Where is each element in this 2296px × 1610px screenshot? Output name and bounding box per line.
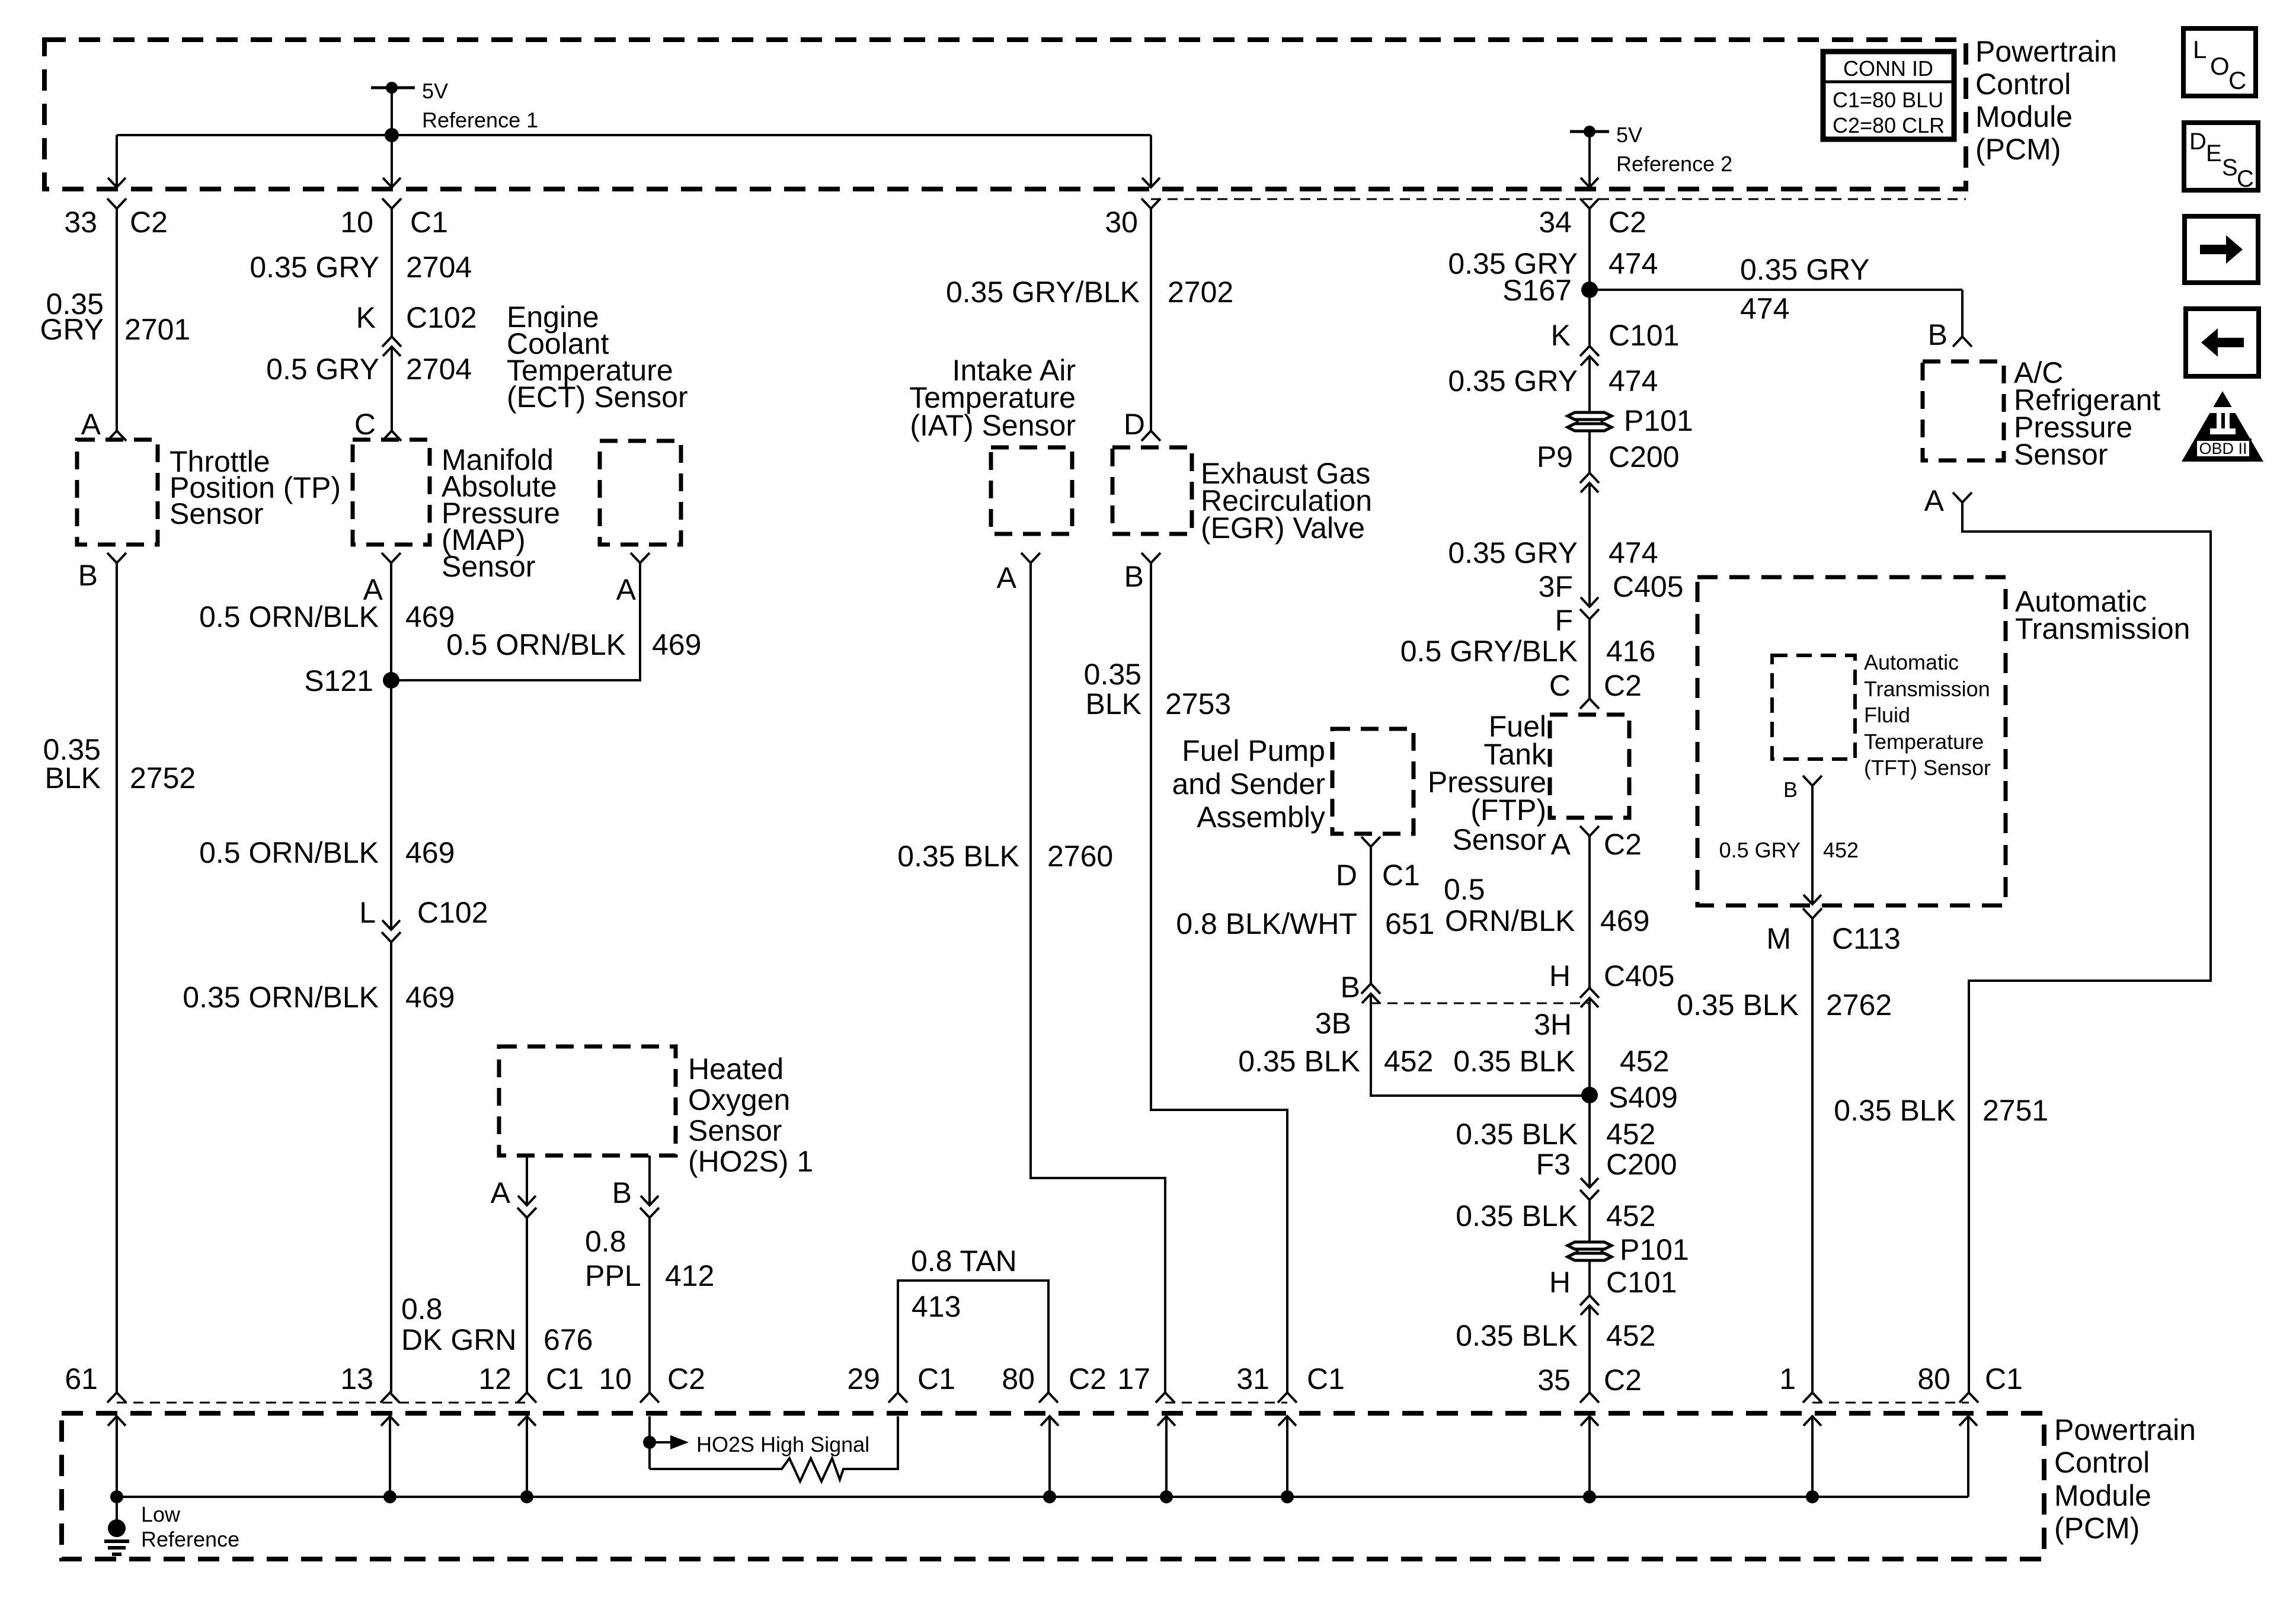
svg-text:S: S (2222, 155, 2238, 181)
svg-text:0.5 ORN/BLK: 0.5 ORN/BLK (199, 600, 379, 633)
svg-text:B: B (1341, 971, 1360, 1004)
svg-text:0.35 BLK: 0.35 BLK (1456, 1319, 1578, 1352)
wire 474 (C200-C405) (1588, 483, 1591, 607)
svg-text:0.5 ORN/BLK: 0.5 ORN/BLK (446, 628, 626, 661)
svg-text:35: 35 (1537, 1363, 1571, 1397)
svg-text:D: D (1336, 859, 1357, 892)
svg-text:0.5 ORN/BLK: 0.5 ORN/BLK (199, 836, 379, 869)
icon DESC box (2184, 123, 2258, 190)
svg-text:Fluid: Fluid (1864, 703, 1910, 727)
icon OBD II triangle (2182, 391, 2263, 462)
svg-text:C2: C2 (667, 1362, 705, 1395)
svg-text:C: C (2228, 66, 2246, 94)
svg-text:C1: C1 (410, 206, 448, 239)
svg-text:C200: C200 (1606, 1148, 1677, 1181)
svg-text:80: 80 (1917, 1362, 1950, 1395)
wire 452 3H (1588, 998, 1591, 1188)
thin dashed line bottom right (1812, 1402, 1969, 1404)
svg-text:Automatic: Automatic (1864, 650, 1959, 674)
svg-text:Powertrain: Powertrain (1975, 35, 2117, 68)
svg-text:452: 452 (1620, 1045, 1669, 1078)
svg-text:0.35 BLK: 0.35 BLK (1677, 988, 1799, 1022)
svg-text:33: 33 (64, 206, 97, 239)
svg-text:HO2S High Signal: HO2S High Signal (696, 1432, 869, 1457)
wire 452 (P101-C101) (1588, 1261, 1591, 1295)
wire 2760 (1031, 563, 1165, 1393)
wire 469 lower (390, 942, 392, 1393)
svg-text:412: 412 (665, 1259, 714, 1292)
pin 1 (bottom) (1803, 1393, 1822, 1403)
svg-text:469: 469 (405, 836, 455, 869)
svg-text:B: B (1783, 777, 1798, 802)
resistor HO2S (650, 1416, 898, 1481)
wire 469 ECT (391, 563, 640, 680)
wire 5V ref1 drop pin10 (391, 88, 393, 187)
svg-text:Transmission: Transmission (1864, 677, 1990, 701)
svg-text:C102: C102 (417, 896, 488, 929)
svg-text:0.35: 0.35 (1084, 658, 1141, 691)
svg-text:469: 469 (405, 981, 455, 1014)
svg-text:C2: C2 (1604, 1363, 1642, 1397)
svg-text:0.35 BLK: 0.35 BLK (1456, 1199, 1578, 1233)
svg-text:0.8: 0.8 (401, 1292, 443, 1326)
Automatic Transmission Fluid Temperature (TFT) Sensor box (1772, 655, 1855, 759)
pin 80 C1 (bottom) (1959, 1393, 1978, 1403)
svg-text:E: E (2206, 140, 2222, 167)
svg-text:452: 452 (1384, 1045, 1433, 1078)
svg-text:(TFT) Sensor: (TFT) Sensor (1864, 756, 1991, 780)
svg-text:C2: C2 (1604, 828, 1642, 861)
svg-text:A: A (1551, 828, 1571, 861)
svg-text:3H: 3H (1534, 1008, 1572, 1041)
svg-text:DK GRN: DK GRN (401, 1323, 516, 1356)
svg-text:P101: P101 (1620, 1233, 1689, 1266)
svg-text:L: L (2193, 36, 2207, 63)
svg-text:F3: F3 (1536, 1148, 1571, 1181)
svg-text:0.8 BLK/WHT: 0.8 BLK/WHT (1176, 907, 1357, 940)
junction bus x=2172 (1281, 1490, 1294, 1503)
wire 452 3B (1371, 994, 1590, 1096)
svg-text:B: B (1928, 318, 1948, 351)
Manifold Absolute Pressure (MAP) Sensor box (353, 440, 430, 545)
pin 61 C2 (bottom) (107, 1393, 126, 1403)
svg-text:M: M (1766, 922, 1791, 955)
wire 5V ref1 drop pin33 (116, 135, 118, 187)
junction 5V ref1 (385, 128, 399, 142)
wire 676 (526, 1218, 528, 1393)
svg-text:K: K (356, 301, 376, 334)
svg-text:0.8: 0.8 (585, 1225, 626, 1258)
svg-text:3B: 3B (1315, 1007, 1351, 1040)
svg-text:C200: C200 (1609, 440, 1680, 473)
svg-text:10: 10 (340, 206, 373, 239)
pin M C113 (1803, 908, 1822, 918)
svg-text:B: B (612, 1176, 632, 1209)
svg-text:Transmission: Transmission (2015, 612, 2190, 645)
svg-text:Reference 2: Reference 2 (1616, 152, 1732, 176)
svg-text:Reference: Reference (141, 1527, 239, 1551)
svg-text:H: H (1549, 959, 1571, 993)
svg-text:S167: S167 (1502, 274, 1572, 307)
ground Low Reference (116, 1497, 118, 1521)
svg-text:2704: 2704 (406, 251, 472, 284)
icon arrow left box (2186, 309, 2259, 376)
svg-text:10: 10 (599, 1362, 632, 1395)
svg-text:3F: 3F (1539, 570, 1573, 603)
Heated Oxygen Sensor (HO2S) 1 box (499, 1046, 676, 1156)
svg-text:A: A (997, 561, 1017, 594)
wire PCM internal x=658 (381, 1416, 399, 1426)
svg-text:651: 651 (1385, 907, 1434, 940)
svg-text:Control: Control (1975, 68, 2071, 101)
Throttle Position (TP) Sensor box (77, 440, 158, 545)
svg-text:(HO2S) 1: (HO2S) 1 (688, 1145, 813, 1178)
svg-text:416: 416 (1606, 635, 1655, 668)
svg-text:61: 61 (65, 1362, 98, 1395)
svg-text:5V: 5V (422, 79, 448, 103)
svg-text:5V: 5V (1616, 123, 1642, 147)
pin 12 C1 (bottom) (517, 1393, 536, 1403)
svg-text:C1: C1 (1382, 859, 1420, 892)
wire 5V ref1 drop pin30 (1150, 135, 1152, 187)
svg-text:Powertrain: Powertrain (2054, 1413, 2196, 1446)
pin 13 (bottom) (380, 1393, 399, 1403)
A/C Refrigerant Pressure Sensor box (1923, 361, 2004, 460)
svg-text:0.8 TAN: 0.8 TAN (911, 1244, 1017, 1278)
svg-text:PPL: PPL (585, 1259, 641, 1292)
svg-text:C1: C1 (1307, 1362, 1345, 1395)
svg-text:34: 34 (1539, 206, 1572, 239)
svg-text:0.35 ORN/BLK: 0.35 ORN/BLK (183, 981, 379, 1014)
svg-text:29: 29 (847, 1362, 880, 1395)
svg-text:BLK: BLK (44, 761, 101, 795)
Fuel Pump and Sender Assembly box (1332, 729, 1414, 834)
pin 17 (bottom) (1156, 1393, 1175, 1403)
svg-text:676: 676 (543, 1323, 593, 1356)
svg-text:C102: C102 (406, 301, 477, 334)
Low Reference bus (117, 1496, 1968, 1498)
svg-text:C2: C2 (130, 206, 168, 239)
svg-text:Sensor: Sensor (1453, 823, 1546, 856)
wire PCM internal x=2682 (1581, 1416, 1598, 1426)
svg-text:Module: Module (1975, 100, 2073, 133)
svg-text:13: 13 (340, 1362, 373, 1395)
svg-text:2702: 2702 (1168, 276, 1233, 309)
wire PCM internal x=889 (518, 1416, 536, 1426)
wire PCM internal x=3058 (1803, 1416, 1821, 1426)
wire 5V ref2 drop pin34 (1588, 132, 1591, 187)
svg-text:C2: C2 (1604, 669, 1642, 702)
wire 474 (C101-P101) (1588, 356, 1591, 411)
svg-text:0.35 BLK: 0.35 BLK (1238, 1045, 1360, 1078)
svg-text:Heated: Heated (688, 1052, 784, 1086)
svg-text:Sensor: Sensor (170, 497, 263, 530)
svg-text:Oxygen: Oxygen (688, 1083, 790, 1116)
svg-text:C2: C2 (1609, 206, 1646, 239)
svg-text:2760: 2760 (1047, 840, 1113, 873)
svg-text:A: A (81, 408, 101, 441)
wire PCM internal x=197 (108, 1416, 126, 1426)
junction bus x=3058 (1806, 1490, 1819, 1503)
svg-text:0.35 BLK: 0.35 BLK (1834, 1094, 1956, 1127)
svg-text:2751: 2751 (1982, 1094, 2048, 1127)
wire 469 MAP (390, 563, 392, 930)
svg-text:C405: C405 (1613, 570, 1684, 603)
svg-text:Sensor: Sensor (2014, 438, 2108, 471)
thin dashed line C405 (1371, 1003, 1590, 1004)
svg-text:(PCM): (PCM) (1975, 133, 2061, 166)
svg-text:2762: 2762 (1826, 988, 1892, 1022)
5V Reference 1 terminal (371, 87, 415, 89)
junction bus x=1771 (1043, 1490, 1056, 1503)
svg-text:C1: C1 (1985, 1362, 2023, 1395)
svg-text:30: 30 (1105, 206, 1138, 239)
svg-text:P9: P9 (1537, 440, 1573, 473)
svg-text:A: A (616, 573, 637, 606)
svg-text:469: 469 (1600, 904, 1649, 937)
svg-text:BLK: BLK (1085, 687, 1141, 721)
svg-text:C2=80 CLR: C2=80 CLR (1833, 113, 1945, 137)
svg-text:2701: 2701 (124, 313, 190, 346)
wire 452 to pin35 (1588, 1305, 1591, 1393)
wire 651 (1370, 847, 1372, 984)
svg-text:474: 474 (1609, 536, 1658, 569)
svg-text:D: D (1124, 408, 1145, 441)
wire 412 (648, 1218, 651, 1393)
svg-text:0.35 BLK: 0.35 BLK (1453, 1045, 1575, 1078)
thin dashed line C1/C2 top (1151, 199, 1966, 200)
svg-text:452: 452 (1606, 1319, 1655, 1352)
wire 416 (1588, 619, 1591, 699)
wire PCM internal x=1968 (1157, 1416, 1175, 1426)
svg-text:Sensor: Sensor (688, 1114, 782, 1147)
Intake Air Temperature (IAT) Sensor box (991, 447, 1072, 534)
svg-text:1: 1 (1779, 1362, 1796, 1395)
junction bus x=197 (110, 1490, 123, 1503)
svg-text:2752: 2752 (130, 761, 196, 795)
svg-text:Control: Control (2054, 1446, 2150, 1479)
pin 35 C2 (bottom) (1580, 1393, 1599, 1403)
pin 10 C1 (382, 199, 401, 209)
svg-text:0.35 GRY/BLK: 0.35 GRY/BLK (946, 276, 1140, 309)
svg-text:17: 17 (1117, 1362, 1150, 1395)
svg-text:A: A (491, 1176, 511, 1209)
5V Reference 2 terminal (1570, 130, 1609, 133)
wire 474 (P101-C200) (1588, 431, 1591, 473)
CONN ID box (1823, 52, 1954, 139)
wire 474 horizontal (1590, 289, 1962, 291)
svg-text:C113: C113 (1832, 922, 1901, 955)
wire 2704 lower (391, 347, 393, 431)
junction bus x=1968 (1160, 1490, 1173, 1503)
svg-text:80: 80 (1002, 1362, 1035, 1395)
svg-text:Sensor: Sensor (442, 550, 535, 583)
Powertrain Control Module (PCM) box (bottom) (62, 1413, 2044, 1559)
svg-text:413: 413 (912, 1290, 961, 1323)
svg-text:0.35 BLK: 0.35 BLK (1456, 1118, 1578, 1151)
svg-text:K: K (1551, 319, 1571, 352)
svg-text:2704: 2704 (406, 353, 472, 386)
svg-text:Assembly: Assembly (1197, 801, 1325, 834)
Exhaust Gas Recirculation (EGR) Valve box (1112, 447, 1192, 534)
Automatic Transmission box (1697, 577, 2006, 905)
svg-text:469: 469 (652, 628, 701, 661)
svg-text:Temperature: Temperature (1864, 729, 1984, 754)
svg-text:and Sender: and Sender (1172, 767, 1325, 801)
svg-text:(EGR) Valve: (EGR) Valve (1201, 511, 1365, 545)
svg-text:C101: C101 (1606, 1266, 1677, 1299)
svg-text:(PCM): (PCM) (2054, 1512, 2140, 1545)
svg-text:0.5 GRY/BLK: 0.5 GRY/BLK (1400, 635, 1578, 668)
svg-text:C1=80 BLU: C1=80 BLU (1833, 88, 1943, 112)
svg-text:474: 474 (1740, 292, 1789, 325)
node S167 (1581, 281, 1598, 298)
thin dashed line bottom middle (1165, 1402, 1287, 1404)
svg-text:CONN ID: CONN ID (1843, 56, 1933, 81)
wire PCM internal x=2172 (1278, 1416, 1296, 1426)
icon LOC box (2183, 28, 2256, 96)
svg-text:Low: Low (141, 1502, 181, 1526)
svg-text:12: 12 (478, 1362, 511, 1395)
svg-text:P101: P101 (1624, 404, 1693, 437)
pin 33 C2 (107, 199, 126, 209)
svg-text:Reference 1: Reference 1 (422, 108, 538, 132)
svg-text:C405: C405 (1604, 959, 1675, 993)
wire PCM internal x=1771 (1041, 1416, 1059, 1426)
wire 2762 (1811, 918, 1814, 1393)
wire 474 (S167-C101) (1588, 290, 1591, 346)
svg-text:S121: S121 (304, 664, 373, 697)
junction bus x=2682 (1583, 1490, 1596, 1503)
Powertrain Control Module (PCM) box (top) (44, 40, 1966, 189)
grommet P101 (upper) (1568, 412, 1611, 420)
svg-text:(ECT) Sensor: (ECT) Sensor (507, 380, 688, 414)
svg-text:OBD II: OBD II (2199, 440, 2247, 457)
svg-text:GRY: GRY (40, 313, 104, 346)
pin 34 C2 (1580, 199, 1599, 209)
svg-text:C1: C1 (546, 1362, 584, 1395)
svg-text:452: 452 (1606, 1199, 1655, 1233)
node S121 (383, 672, 399, 689)
svg-text:0.35 GRY: 0.35 GRY (1448, 364, 1578, 398)
svg-text:C1: C1 (917, 1362, 955, 1395)
pin 10 C2 (bottom) (640, 1393, 659, 1403)
Fuel Tank Pressure (FTP) Sensor box (1550, 715, 1629, 818)
svg-text:B: B (78, 559, 98, 592)
svg-text:0.5 GRY: 0.5 GRY (266, 353, 379, 386)
pin 29 C1 (bottom) (888, 1393, 907, 1403)
wire 413 TAN (898, 1281, 1048, 1393)
wire 452 TFT (1811, 786, 1814, 904)
svg-text:H: H (1549, 1266, 1571, 1299)
svg-text:ORN/BLK: ORN/BLK (1445, 904, 1575, 937)
wire 2751 (1962, 502, 2211, 1393)
svg-text:474: 474 (1609, 364, 1658, 398)
svg-text:D: D (2189, 129, 2207, 155)
pin 31 C1 (bottom) (1278, 1393, 1297, 1403)
svg-text:C: C (354, 408, 376, 441)
wire 5V Reference 1 bus (117, 134, 1151, 136)
svg-text:0.35 GRY: 0.35 GRY (1740, 253, 1870, 286)
svg-text:(FTP): (FTP) (1470, 793, 1546, 827)
svg-text:31: 31 (1236, 1362, 1269, 1395)
svg-text:C101: C101 (1609, 319, 1680, 352)
svg-text:0.5: 0.5 (1444, 873, 1485, 906)
svg-text:2753: 2753 (1165, 687, 1231, 721)
svg-text:0.35 GRY: 0.35 GRY (250, 251, 379, 284)
svg-text:452: 452 (1823, 838, 1859, 862)
icon arrow right box (2185, 216, 2258, 283)
Engine Coolant Temperature (ECT) Sensor box (600, 441, 681, 545)
svg-text:B: B (1124, 560, 1144, 593)
svg-text:A: A (1924, 484, 1945, 517)
svg-text:0.35 GRY: 0.35 GRY (1448, 536, 1578, 569)
svg-text:S409: S409 (1609, 1081, 1678, 1114)
node S409 (1581, 1087, 1598, 1103)
svg-text:Fuel Pump: Fuel Pump (1182, 734, 1325, 767)
svg-text:C: C (1549, 669, 1571, 702)
svg-text:0.35 BLK: 0.35 BLK (897, 840, 1019, 873)
wire 469 FTP (1588, 836, 1591, 988)
svg-text:(IAT) Sensor: (IAT) Sensor (910, 409, 1076, 442)
svg-text:L: L (359, 896, 376, 929)
wire HO2S high signal (648, 1416, 651, 1469)
grommet P101 (lower) (1568, 1242, 1611, 1249)
svg-text:O: O (2210, 52, 2230, 80)
wire 2753 (1151, 563, 1287, 1393)
svg-text:474: 474 (1609, 247, 1658, 280)
pin 30 (1141, 199, 1160, 209)
svg-text:Module: Module (2054, 1479, 2151, 1512)
svg-text:C: C (2237, 166, 2254, 192)
junction bus x=658 (383, 1490, 396, 1503)
svg-text:452: 452 (1606, 1118, 1655, 1151)
thin dashed line bottom left (117, 1402, 527, 1404)
svg-text:0.5 GRY: 0.5 GRY (1719, 838, 1801, 862)
pin 80 C2 (bottom) (1039, 1393, 1058, 1403)
svg-text:F: F (1555, 604, 1573, 637)
junction bus x=889 (520, 1490, 533, 1503)
wire 452 (C200-P101) (1588, 1200, 1591, 1241)
svg-text:C2: C2 (1069, 1362, 1107, 1395)
wire 2752 (116, 563, 118, 1393)
